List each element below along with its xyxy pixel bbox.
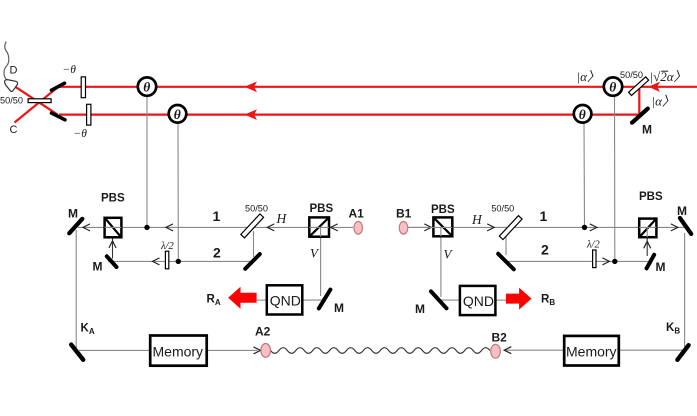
wire right mirror up to right PBS xyxy=(646,237,648,256)
svg-text:PBS: PBS xyxy=(639,191,663,203)
mirror at B QND xyxy=(431,291,447,308)
arrow right on line1 B side xyxy=(487,224,494,231)
svg-text:−θ: −θ xyxy=(74,128,88,140)
right column wire M to KB xyxy=(684,233,686,347)
wire A PBS down to QND mirror xyxy=(320,237,322,296)
svg-text:1: 1 xyxy=(540,208,548,224)
node dot line2 left xyxy=(176,259,181,264)
svg-text:H: H xyxy=(276,211,288,226)
PBS A xyxy=(309,217,329,236)
memory line B2 to Memory xyxy=(504,349,565,351)
svg-text:50/50: 50/50 xyxy=(620,70,643,80)
node dot line1 left xyxy=(144,225,149,230)
node dot line1 right xyxy=(582,225,587,230)
svg-text:M: M xyxy=(415,302,425,316)
mirror M top-right xyxy=(680,218,691,234)
svg-text:V: V xyxy=(444,247,454,262)
arrow left on line1 before dot xyxy=(166,224,173,231)
50/50 beam splitter right-top xyxy=(629,77,649,96)
arrow up into right PBS xyxy=(644,241,651,248)
red diagonal beam: lower mirror to detector xyxy=(16,87,58,115)
phase plate -theta top xyxy=(81,77,85,98)
half-wave plate A xyxy=(165,251,168,269)
svg-text:θ: θ xyxy=(579,107,586,122)
wire B PBS down to QND mirror xyxy=(440,236,442,297)
QND box B xyxy=(460,286,496,315)
wire QND-A right to mirror xyxy=(302,299,321,301)
red result arrow RA xyxy=(228,287,257,309)
svg-text:2: 2 xyxy=(213,245,221,261)
photon A2 xyxy=(261,344,271,358)
wire QND-B right xyxy=(495,299,506,301)
wire A 50/50 down to mirror xyxy=(253,231,255,257)
red beam line 1 (top) xyxy=(58,86,697,88)
mirror KB xyxy=(677,345,688,360)
PBS B xyxy=(433,217,452,236)
Memory box A xyxy=(150,336,207,366)
svg-text:M: M xyxy=(334,301,344,315)
svg-text:50/50: 50/50 xyxy=(0,96,23,106)
wire B 50/50 down to mirror xyxy=(505,237,507,255)
50/50 beam splitter bar at X xyxy=(28,99,51,103)
wire through PBS right xyxy=(639,227,656,237)
phase shifter theta left-top xyxy=(138,77,156,95)
QND box A xyxy=(267,285,303,314)
memory line KA to Memory xyxy=(79,349,150,351)
mirror left line2 xyxy=(107,256,117,267)
arrow right on line2 B side xyxy=(602,258,609,265)
photon B1 xyxy=(399,222,408,235)
svg-text:M: M xyxy=(642,123,652,137)
svg-text:KA: KA xyxy=(81,323,95,337)
svg-text:M: M xyxy=(677,204,687,218)
arrow up into left PBS xyxy=(109,241,116,248)
wire through PBS left xyxy=(105,226,122,228)
svg-text:KB: KB xyxy=(666,322,680,336)
red beam line 2 (bottom) xyxy=(59,113,643,115)
mirror right line2 xyxy=(647,255,655,269)
svg-text:V: V xyxy=(310,246,320,261)
red arrowhead line 1 right xyxy=(648,82,660,92)
wire from theta left-bottom to node xyxy=(177,123,179,261)
red vertical beam at right 50/50 xyxy=(638,87,640,115)
svg-text:λ/2: λ/2 xyxy=(586,240,600,251)
arrow left on line2 A side xyxy=(153,258,160,265)
svg-text:M: M xyxy=(656,260,666,274)
Memory box B xyxy=(564,336,619,366)
mid line 2 right segment xyxy=(506,260,649,262)
mirror M right-top xyxy=(632,109,648,123)
arrow left into B2 xyxy=(504,347,511,354)
mirror lower-left small xyxy=(52,113,66,120)
PBS right xyxy=(639,219,656,238)
wire QND-A left xyxy=(257,299,267,301)
mid line 1 right segment xyxy=(409,226,685,228)
svg-text:D: D xyxy=(10,65,18,77)
mirror at A QND xyxy=(319,290,331,309)
svg-text:θ: θ xyxy=(609,80,616,95)
svg-text:θ: θ xyxy=(174,107,181,122)
svg-text:A1: A1 xyxy=(349,207,365,221)
red arrowhead line 1 left xyxy=(245,81,258,92)
mirror M top-left xyxy=(69,219,82,234)
svg-text:50/50: 50/50 xyxy=(245,203,268,213)
detector D xyxy=(5,80,18,92)
wire from theta right-bottom to node xyxy=(583,123,586,227)
entangled photon wavy link xyxy=(271,348,490,354)
svg-text:PBS: PBS xyxy=(101,193,125,205)
svg-text:Memory: Memory xyxy=(153,344,204,360)
svg-text:B1: B1 xyxy=(396,207,412,221)
arrow left into mirror M xyxy=(83,224,90,231)
node dot line2 right xyxy=(612,259,617,264)
mirror below A 50/50 xyxy=(245,254,260,269)
memory line Memory to A2 xyxy=(207,349,258,351)
mirror upper-left small xyxy=(52,83,65,90)
phase shifter theta left-bottom xyxy=(169,105,187,123)
arrow right into right mirror M xyxy=(671,224,678,231)
arrow right after dot line1 xyxy=(590,224,597,231)
wire B mirror to QND-B xyxy=(440,299,460,301)
wire from theta right-top to node xyxy=(614,96,616,261)
svg-text:|α〉: |α〉 xyxy=(577,69,600,84)
label ket sqrt2 alpha xyxy=(650,69,687,84)
half-wave plate B xyxy=(593,250,596,268)
svg-text:A2: A2 xyxy=(255,325,271,339)
50/50 beam splitter B side xyxy=(499,216,522,240)
arrow right into A2 xyxy=(254,347,261,354)
svg-text:B2: B2 xyxy=(492,331,508,345)
wire left PBS to lower mirror xyxy=(112,237,114,258)
svg-text:PBS: PBS xyxy=(310,203,334,215)
phase shifter theta right-top xyxy=(604,77,622,95)
wire to detector D xyxy=(4,42,9,80)
mirror KA xyxy=(71,345,83,360)
svg-text:θ: θ xyxy=(143,80,150,95)
red diagonal beam: upper mirror to C xyxy=(15,87,58,122)
svg-text:RB: RB xyxy=(541,294,555,308)
50/50 beam splitter A side xyxy=(241,214,264,238)
svg-text:QND: QND xyxy=(270,293,301,309)
PBS left xyxy=(105,218,122,238)
svg-text:M: M xyxy=(93,260,103,274)
svg-text:−θ: −θ xyxy=(63,64,77,76)
svg-text:C: C xyxy=(10,124,18,136)
photon A1 xyxy=(354,222,363,235)
svg-text:50/50: 50/50 xyxy=(491,204,514,214)
svg-text:|α〉: |α〉 xyxy=(652,93,675,108)
photon B2 xyxy=(491,344,501,358)
red arrowhead line 2 left xyxy=(245,109,258,120)
line B1 to PBS xyxy=(408,226,433,228)
mirror below B 50/50 xyxy=(498,254,514,269)
svg-text:PBS: PBS xyxy=(431,204,455,216)
arrow left into A PBS xyxy=(331,224,338,231)
phase shifter theta right-bottom xyxy=(574,105,592,123)
wire from theta left-top to node xyxy=(146,96,148,227)
wire through PBS B xyxy=(433,227,452,236)
svg-text:Memory: Memory xyxy=(566,344,617,360)
svg-text:1: 1 xyxy=(213,208,221,224)
memory line Memory to KB xyxy=(619,349,685,351)
svg-text:QND: QND xyxy=(463,293,494,309)
mid line 1 left segment xyxy=(78,226,353,228)
arrow left on line1 A side xyxy=(267,224,274,231)
svg-text:λ/2: λ/2 xyxy=(160,241,174,252)
mid line 2 left segment xyxy=(108,260,252,262)
svg-text:M: M xyxy=(68,207,78,221)
phase plate -theta bottom xyxy=(87,104,91,125)
svg-text:2: 2 xyxy=(541,241,549,257)
wire through PBS A xyxy=(309,227,329,236)
svg-text:RA: RA xyxy=(207,294,221,308)
left column wire M to KA xyxy=(75,230,77,348)
svg-text:H: H xyxy=(471,212,483,227)
red result arrow RB xyxy=(506,288,532,310)
arrow right into B PBS xyxy=(424,224,431,231)
